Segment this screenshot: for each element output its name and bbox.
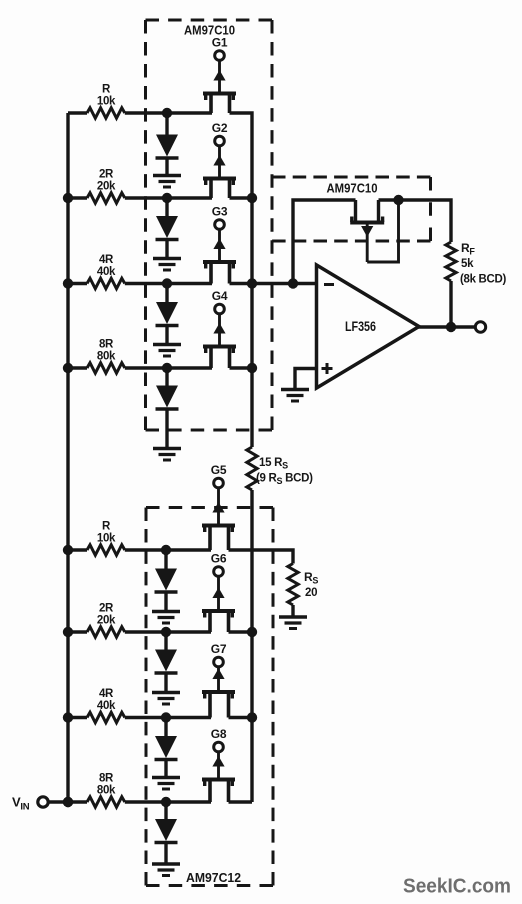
diode CR3 clamp with ground (upper row 3)	[153, 284, 181, 357]
label R 10k (upper row 1)	[97, 84, 116, 108]
svg-text:8R: 8R	[99, 773, 114, 785]
wire feedback riser	[293, 200, 356, 284]
wire G1 drain lead and summing bus	[230, 113, 253, 447]
transistor feedback switch (AM97C10, gate tied to drain)	[350, 200, 398, 262]
node junction row 6 diode tap	[161, 627, 171, 637]
label LF356	[345, 319, 376, 334]
wire G5 drain lead to RS	[229, 550, 294, 564]
wire row 6 left segment	[68, 630, 87, 633]
node junction left bus row 4	[63, 363, 73, 373]
node feedback tap junction	[288, 278, 298, 288]
svg-text:20k: 20k	[97, 615, 116, 627]
svg-text:20: 20	[305, 587, 317, 599]
diode CR1 clamp with ground (upper row 1)	[153, 113, 181, 187]
svg-text:G6: G6	[211, 552, 227, 566]
switch IC AM97C12 dashed outline (lower quad switch)	[146, 508, 273, 886]
node junction left bus row 5	[63, 545, 73, 555]
label 4R 40k (lower row 7)	[97, 688, 116, 712]
node junction lower bus row 6	[247, 627, 257, 637]
wire row 5 to switch	[125, 548, 211, 551]
ground op-amp non-inverting input	[281, 390, 309, 402]
terminal VIN	[38, 797, 48, 807]
wire row 6 to switch	[125, 630, 211, 633]
diode CR6 clamp with ground (lower row 6)	[152, 632, 180, 704]
wire row 4 left segment	[68, 366, 87, 369]
transistor switch Q7 gate G7 (AM97C12)	[202, 642, 235, 718]
svg-text:G8: G8	[211, 727, 227, 741]
wire lower summing bus	[250, 490, 253, 802]
wire row 2 to switch	[125, 196, 212, 199]
label 15 RS (9 RS BCD)	[256, 457, 313, 486]
svg-text:R: R	[102, 521, 111, 533]
node junction summing bus row 4	[247, 363, 257, 373]
svg-text:8R: 8R	[99, 339, 114, 351]
resistor R7 (4R 40k) lower ladder	[87, 712, 125, 722]
resistor R8 (8R 80k) lower ladder	[87, 797, 125, 807]
wire summing node to op-amp inverting input	[252, 282, 317, 285]
svg-text:10k: 10k	[97, 533, 116, 545]
label 8R 80k (upper row 4)	[97, 339, 116, 363]
node junction row 3 diode tap	[162, 278, 172, 288]
svg-text:SeekIC.com: SeekIC.com	[403, 875, 511, 898]
diode CR2 clamp with ground (upper row 2)	[153, 198, 181, 270]
node junction row 4 diode tap	[162, 363, 172, 373]
wire RS to ground	[291, 605, 294, 617]
wire row 8 left segment	[68, 800, 87, 803]
op-amp non-inverting input + sign	[322, 363, 333, 374]
switch IC AM97C10 dashed outline (feedback switch box)	[272, 177, 431, 241]
label VIN input	[12, 795, 30, 813]
transistor switch Q1 gate G1 (AM97C10)	[203, 36, 236, 114]
transistor switch Q3 gate G3 (AM97C10)	[203, 205, 236, 284]
svg-text:5k: 5k	[461, 258, 474, 270]
wire non-inverting input to ground	[295, 369, 317, 390]
svg-text:(9 RS BCD): (9 RS BCD)	[256, 473, 313, 487]
resistor RS 20	[288, 564, 298, 606]
label 4R 40k (upper row 3)	[97, 254, 116, 278]
svg-text:G7: G7	[211, 642, 227, 656]
wire op-amp output	[417, 325, 476, 328]
wire row 5 left segment	[68, 548, 87, 551]
node junction VIN / bus	[63, 797, 73, 807]
node junction summing bus row 3	[247, 278, 257, 288]
svg-text:G1: G1	[212, 36, 228, 50]
label AM97C10 (upper box)	[184, 23, 235, 38]
node junction row 1 diode tap	[162, 108, 172, 118]
label 2R 20k (upper row 2)	[97, 169, 116, 193]
node junction left bus row 6	[63, 627, 73, 637]
wire row 3 to switch	[125, 282, 212, 285]
resistor R3 (4R 40k) upper ladder	[87, 278, 125, 288]
svg-text:4R: 4R	[99, 254, 114, 266]
node junction left bus row 2	[63, 193, 73, 203]
node junction row 7 diode tap	[161, 712, 171, 722]
svg-text:2R: 2R	[99, 603, 114, 615]
diode CR7 clamp with ground (lower row 7)	[152, 718, 180, 790]
wire row 7 to switch	[125, 716, 211, 719]
svg-text:2R: 2R	[99, 169, 114, 181]
transistor switch Q8 gate G8 (AM97C12)	[202, 727, 235, 802]
svg-text:AM97C10: AM97C10	[184, 23, 235, 38]
op-amp inverting input - sign	[324, 283, 334, 286]
wire G6 drain lead	[229, 630, 253, 633]
diode CR5 clamp with ground (lower row 5)	[152, 550, 180, 623]
switch IC AM97C10 dashed outline (upper quad switch)	[146, 20, 273, 430]
node junction output / RF	[446, 322, 456, 332]
wire VIN to bus	[48, 800, 68, 803]
node junction summing bus row 2	[247, 193, 257, 203]
node junction left bus row 3	[63, 278, 73, 288]
wire G4 drain lead	[230, 366, 253, 369]
resistor R2 (2R 20k) upper ladder	[87, 193, 125, 203]
svg-text:G5: G5	[211, 463, 227, 477]
label AM97C12 (lower box)	[186, 870, 241, 885]
wire row 2 left segment	[68, 196, 87, 199]
watermark SeekIC.com	[403, 875, 511, 898]
resistor R6 (2R 20k) lower ladder	[87, 627, 125, 637]
svg-text:(8k BCD): (8k BCD)	[460, 274, 506, 286]
svg-text:R: R	[102, 84, 111, 96]
svg-text:AM97C10: AM97C10	[327, 181, 378, 196]
svg-text:40k: 40k	[97, 266, 116, 278]
svg-text:80k: 80k	[97, 351, 116, 363]
wire G2 drain lead	[230, 196, 253, 199]
transistor switch Q2 gate G2 (AM97C10)	[203, 121, 236, 198]
diode CR8 clamp with ground (lower row 8)	[152, 802, 180, 876]
resistor RF 5k (8k BCD) feedback	[446, 242, 456, 281]
node junction lower bus row 7	[247, 712, 257, 722]
wire left input bus (VIN ladder bus)	[66, 113, 69, 802]
node junction row 2 diode tap	[162, 193, 172, 203]
wire row 1 to switch	[125, 111, 212, 114]
resistor R4 (8R 80k) upper ladder	[87, 363, 125, 373]
resistor R5 (R 10k) lower ladder	[87, 545, 125, 555]
label 8R 80k (lower row 8)	[97, 773, 116, 797]
ground RS 20	[279, 617, 307, 629]
node junction left bus row 8	[63, 797, 73, 807]
diode CR4 clamp with ground (upper row 4)	[153, 368, 181, 460]
svg-text:LF356: LF356	[345, 319, 376, 334]
resistor 15 RS (9 RS BCD)	[247, 447, 257, 490]
svg-text:80k: 80k	[97, 785, 116, 797]
svg-text:20k: 20k	[97, 181, 116, 193]
svg-text:4R: 4R	[99, 688, 114, 700]
wire row 8 to switch	[125, 800, 211, 803]
transistor switch Q4 gate G4 (AM97C10)	[203, 289, 236, 368]
wire G3 drain lead	[230, 282, 253, 285]
wire G7 drain lead	[229, 716, 253, 719]
wire feedback switch drain to RF	[379, 200, 452, 242]
resistor R1 (R 10k) upper ladder	[87, 108, 125, 118]
wire row 4 to switch	[125, 366, 212, 369]
svg-text:AM97C12: AM97C12	[186, 870, 241, 885]
svg-text:G2: G2	[212, 121, 228, 135]
svg-text:10k: 10k	[97, 96, 116, 108]
node junction left bus row 7	[63, 712, 73, 722]
label RF 5k (8k BCD)	[460, 241, 506, 286]
transistor switch Q6 gate G6 (AM97C12)	[202, 552, 235, 633]
node junction feedback gate tie	[393, 195, 403, 205]
wire G8 drain lead	[229, 800, 253, 803]
node junction row 8 diode tap	[161, 797, 171, 807]
label 2R 20k (lower row 6)	[97, 603, 116, 627]
wire row 3 left segment	[68, 282, 87, 285]
wire RF to output node	[449, 281, 452, 327]
transistor switch Q5 gate G5 (AM97C12)	[202, 463, 235, 550]
node junction row 5 diode tap	[161, 545, 171, 555]
label AM97C10 (feedback box)	[327, 181, 378, 196]
wire row 1 left segment	[68, 111, 87, 114]
wire row 7 left segment	[68, 716, 87, 719]
label R 10k (lower row 5)	[97, 521, 116, 545]
terminal output	[475, 322, 485, 332]
svg-text:G3: G3	[212, 205, 228, 219]
svg-text:40k: 40k	[97, 700, 116, 712]
op-amp U1 LF356 triangle	[317, 265, 420, 388]
svg-text:G4: G4	[212, 289, 228, 303]
label RS 20	[304, 570, 318, 599]
